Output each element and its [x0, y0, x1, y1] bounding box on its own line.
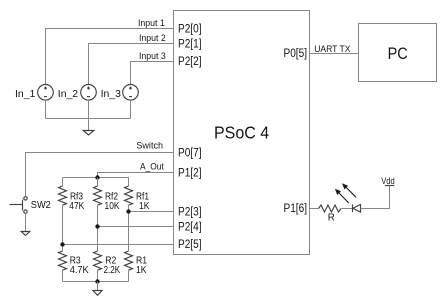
- wire In_3 bottom to bus: [130, 100, 132, 118]
- svg-text:10K: 10K: [105, 201, 120, 212]
- svg-text:PC: PC: [388, 45, 408, 63]
- power Vdd: [385, 185, 394, 187]
- resistor Rf2 10K: [94, 178, 102, 252]
- svg-text:1K: 1K: [139, 201, 150, 212]
- svg-text:P2[5]: P2[5]: [178, 239, 202, 251]
- switch SW2: [10, 197, 28, 214]
- svg-text:P2[2]: P2[2]: [178, 56, 202, 68]
- node P2[3] junction: [126, 209, 130, 213]
- svg-text:In_2: In_2: [58, 88, 78, 100]
- node P2[4] junction: [95, 224, 99, 228]
- svg-text:Switch: Switch: [136, 140, 163, 151]
- svg-text:P1[6]: P1[6]: [284, 203, 308, 215]
- ground (SW2): [21, 213, 30, 235]
- wire top bus of ladder: [63, 177, 129, 179]
- wire P2[5] tap: [63, 244, 174, 246]
- node P2[5] junction: [60, 242, 64, 246]
- svg-text:P0[7]: P0[7]: [178, 147, 202, 159]
- ground (sources): [83, 119, 94, 136]
- wire P2[3] tap: [129, 211, 174, 213]
- wire ground bus: [46, 118, 131, 120]
- svg-text:P1[2]: P1[2]: [178, 167, 202, 179]
- resistor R2 2.2K: [94, 251, 102, 282]
- resistor Rf3 47K: [59, 178, 67, 252]
- svg-text:P2[4]: P2[4]: [178, 221, 202, 233]
- svg-text:PSoC 4: PSoC 4: [214, 122, 269, 142]
- wire R to LED: [341, 208, 353, 210]
- wire In_2 bottom to bus: [88, 100, 90, 118]
- svg-text:Input 1: Input 1: [138, 18, 165, 29]
- wire P2[4] tap: [98, 226, 174, 228]
- svg-text:R: R: [328, 213, 335, 224]
- svg-text:1K: 1K: [136, 265, 147, 276]
- wire LED to Vdd: [361, 186, 390, 209]
- svg-text:Vdd: Vdd: [381, 176, 395, 187]
- resistor R1 1K: [125, 251, 133, 282]
- wire Switch (SW2 to P0[7]): [26, 153, 174, 197]
- LED emission arrow 2: [342, 183, 356, 197]
- wire A_Out (P1[2] to resistor ladder): [98, 173, 174, 178]
- svg-text:UART TX: UART TX: [314, 44, 351, 55]
- svg-text:P2[1]: P2[1]: [178, 38, 202, 50]
- node A_Out junction: [95, 175, 99, 179]
- svg-text:4.7K: 4.7K: [70, 265, 89, 276]
- node ground junction: [95, 279, 99, 283]
- PSoC 4 block U1: [174, 11, 310, 255]
- svg-text:P2[3]: P2[3]: [178, 206, 202, 218]
- wire Input 1 (In_1 to P2[0]): [46, 29, 174, 85]
- PC block: [359, 24, 437, 82]
- current source In_1: [38, 85, 54, 101]
- resistor R3 4.7K: [59, 251, 67, 282]
- wire UART TX (P0[5] to PC): [310, 53, 359, 55]
- svg-text:SW2: SW2: [31, 200, 51, 211]
- current source In_3: [123, 85, 139, 101]
- svg-text:P0[5]: P0[5]: [284, 48, 308, 60]
- svg-text:In_1: In_1: [15, 88, 35, 100]
- resistor R: [319, 205, 342, 212]
- svg-text:Input 3: Input 3: [139, 51, 166, 62]
- wire P1[6] to resistor R: [310, 208, 319, 210]
- LED D1: [353, 205, 361, 213]
- svg-text:A_Out: A_Out: [140, 162, 164, 173]
- svg-text:In_3: In_3: [101, 88, 121, 100]
- wire Input 3 (In_3 to P2[2]): [131, 62, 174, 85]
- resistor Rf1 1K: [125, 178, 133, 252]
- wire In_1 bottom to bus: [45, 100, 47, 118]
- wire bottom bus: [63, 281, 129, 283]
- current source In_2: [81, 85, 97, 101]
- svg-text:Input 2: Input 2: [139, 33, 166, 44]
- LED emission arrow 1: [335, 189, 349, 203]
- ground (ladder): [93, 282, 102, 296]
- svg-text:47K: 47K: [69, 201, 84, 212]
- wire Input 2 (In_2 to P2[1]): [89, 44, 174, 85]
- svg-text:2.2K: 2.2K: [104, 265, 121, 276]
- svg-text:P2[0]: P2[0]: [178, 23, 202, 35]
